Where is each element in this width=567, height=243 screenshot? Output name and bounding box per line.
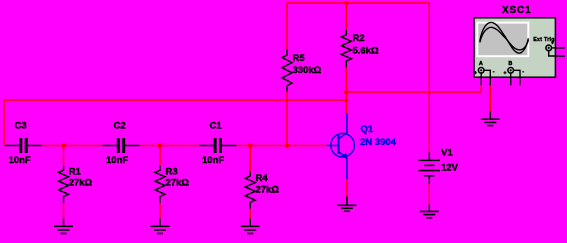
wire: R3 top lead <box>159 146 161 167</box>
wire: R5 top lead from VCC rail <box>286 2 288 50</box>
resistor R2 <box>341 30 351 68</box>
svg-text:27kΩ: 27kΩ <box>69 178 93 189</box>
svg-text:A: A <box>479 61 483 67</box>
svg-text:10nF: 10nF <box>106 155 128 166</box>
svg-text:Q1: Q1 <box>361 124 374 135</box>
scope trace sine wave B <box>480 27 529 50</box>
svg-text:27kΩ: 27kΩ <box>256 184 280 195</box>
wire: R1 bottom to ground <box>63 203 65 220</box>
svg-text:C3: C3 <box>15 120 27 131</box>
resistor R3 <box>155 166 165 204</box>
svg-text:12V: 12V <box>441 162 459 173</box>
ground below R1 <box>54 219 73 234</box>
svg-text:V1: V1 <box>441 148 453 159</box>
channel B terminal <box>508 68 520 86</box>
svg-text:C2: C2 <box>114 120 126 131</box>
wire: collector node to scope channel A <box>346 85 481 92</box>
emitter arrowhead of Q1 <box>341 153 347 159</box>
junction node at C2/R3 <box>158 143 163 148</box>
ground below R3 <box>151 219 170 234</box>
capacitor C1 <box>199 138 236 153</box>
svg-text:5.6kΩ: 5.6kΩ <box>353 46 379 57</box>
wire: R2 bottom to collector node <box>345 68 347 114</box>
transistor Q1 2N3904 <box>327 113 355 179</box>
capacitor C3 <box>5 138 42 153</box>
channel A terminal <box>478 68 490 86</box>
svg-text:2N 3904: 2N 3904 <box>360 137 397 148</box>
resistor R4 <box>245 171 255 209</box>
svg-text:XSC1: XSC1 <box>502 5 531 16</box>
junction node at collector/scope wire <box>344 90 349 95</box>
svg-text:+: + <box>504 70 507 76</box>
resistor R5 <box>282 50 292 93</box>
svg-text:R1: R1 <box>69 166 82 177</box>
svg-text:R3: R3 <box>166 166 178 177</box>
ground below scope A negative pin <box>481 112 500 126</box>
capacitor C2 <box>103 138 140 153</box>
svg-text:+: + <box>474 70 477 76</box>
wire: R4 bottom to ground <box>249 209 251 220</box>
scope trace sine wave A <box>480 22 529 53</box>
ground below Q1 emitter <box>337 197 356 212</box>
wire: R3 bottom to ground <box>159 203 161 220</box>
svg-text:B: B <box>508 61 512 67</box>
resistor R1 <box>59 166 69 204</box>
junction node at R2/VCC rail <box>344 1 349 6</box>
svg-text:R2: R2 <box>353 33 365 44</box>
wire: VCC top rail <box>287 2 430 4</box>
svg-text:R4: R4 <box>256 173 269 184</box>
junction node at C3/R1 <box>61 143 66 148</box>
wire: R2 top lead from VCC rail <box>345 3 347 30</box>
svg-text:10nF: 10nF <box>9 155 31 166</box>
svg-text:-: - <box>522 69 524 75</box>
wire: scope A negative pin to ground <box>489 85 491 113</box>
wire: C1 to transistor base <box>236 145 327 147</box>
svg-text:C1: C1 <box>210 120 223 131</box>
wire: emitter to ground <box>346 179 348 198</box>
wire: feedback from collector node to C3 input (top-left loop) <box>4 100 346 146</box>
oscilloscope XSC1 body <box>474 18 555 77</box>
wire: C3-C2 net <box>41 145 103 147</box>
svg-text:-: - <box>493 69 495 75</box>
svg-text:10nF: 10nF <box>202 155 224 166</box>
svg-text:27kΩ: 27kΩ <box>166 178 190 189</box>
wire: R1 top lead <box>63 146 65 167</box>
wire: R5 bottom to base node <box>286 92 288 146</box>
wire: C2-C1 net <box>139 145 200 147</box>
junction node at R5/base <box>285 143 290 148</box>
svg-text:R5: R5 <box>293 53 306 64</box>
svg-text:330kΩ: 330kΩ <box>293 65 322 76</box>
ground below R4 <box>241 219 260 234</box>
ground below V1 <box>420 204 439 217</box>
wire: R4 top lead <box>249 146 251 172</box>
wire: V1 negative to ground <box>428 183 430 205</box>
scope screen <box>476 22 529 58</box>
junction node at C1/R4 <box>248 143 253 148</box>
wire: VCC rail down to V1 positive <box>428 3 430 153</box>
junction node at collector/feedback wire <box>344 98 348 102</box>
battery V1 <box>419 153 441 184</box>
Ext Trig terminal <box>546 45 565 56</box>
